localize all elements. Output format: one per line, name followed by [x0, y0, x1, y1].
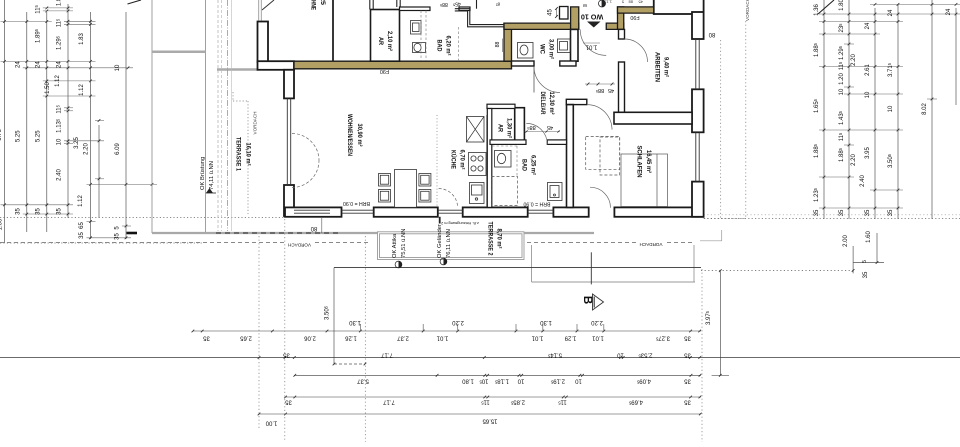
wall pier left top: [258, 22, 269, 63]
svg-text:1.01: 1.01: [585, 44, 597, 50]
svg-text:1.80: 1.80: [462, 378, 474, 384]
dim chain line 2 full width: [0, 357, 960, 359]
dim chain line 5: [259, 413, 701, 415]
svg-text:1.8: 1.8: [57, 0, 63, 6]
svg-text:AR: AR: [497, 124, 503, 133]
svg-text:10: 10: [575, 378, 582, 384]
svg-text:6,20 m²: 6,20 m²: [445, 36, 452, 56]
wall step horizontal: [258, 61, 295, 70]
svg-text:35: 35: [115, 233, 121, 240]
svg-text:45: 45: [548, 9, 554, 16]
svg-text:35: 35: [863, 271, 869, 278]
vordach grey double line above building: [258, 0, 260, 21]
WC washbasin: [558, 39, 571, 53]
svg-text:24: 24: [888, 9, 894, 16]
svg-text:WC: WC: [539, 44, 545, 55]
bottom wall pier 5 + corner: [614, 207, 703, 216]
svg-text:24: 24: [15, 61, 21, 68]
bad2 toilet: [495, 151, 512, 168]
svg-text:1.01: 1.01: [592, 335, 604, 341]
svg-text:45: 45: [638, 0, 643, 5]
interior walls: [370, 0, 692, 207]
svg-text:2.00: 2.00: [843, 235, 849, 247]
entrance door arc WO10: [580, 29, 606, 55]
schlafen terrace door arc: [590, 187, 611, 208]
terrace 1 boundary lines: [151, 0, 153, 233]
dining table: [379, 170, 431, 208]
svg-text:VORDACH: VORDACH: [640, 242, 663, 247]
svg-text:1.83: 1.83: [79, 33, 85, 45]
kitchen units: [467, 115, 487, 207]
svg-text:KÜCHE: KÜCHE: [450, 150, 457, 169]
arbeiten left wall: [619, 62, 625, 113]
ground line: [334, 267, 701, 269]
svg-text:35: 35: [888, 209, 894, 216]
bad2 washbasin: [548, 183, 563, 201]
svg-text:6,25 m²: 6,25 m²: [530, 155, 537, 175]
svg-text:24: 24: [57, 61, 63, 68]
svg-text:35: 35: [684, 335, 691, 341]
svg-text:35: 35: [15, 208, 21, 215]
installation dashed lines bad 6.20: [420, 11, 422, 62]
svg-text:OK Brüstung: OK Brüstung: [200, 157, 206, 190]
svg-text:2.20: 2.20: [84, 143, 90, 155]
svg-text:AR: AR: [377, 37, 383, 46]
svg-text:6,70 m²: 6,70 m²: [459, 150, 466, 170]
VORDACH labels: [286, 240, 313, 247]
svg-text:35: 35: [35, 208, 41, 215]
schlafen door arc: [587, 105, 612, 130]
wohnen french doors dashed arcs: [292, 134, 319, 161]
svg-text:45: 45: [547, 124, 553, 130]
right dimension chain block: [704, 0, 960, 219]
section tick top-right: [818, 0, 834, 14]
svg-text:10: 10: [865, 91, 871, 98]
svg-text:1.01: 1.01: [531, 335, 543, 341]
svg-text:35: 35: [684, 378, 691, 384]
svg-text:2.20: 2.20: [452, 319, 464, 325]
svg-text:24: 24: [865, 22, 871, 29]
svg-text:75,51 ü.NN: 75,51 ü.NN: [401, 229, 407, 258]
wall step vertical: [284, 70, 294, 99]
svg-text:45: 45: [608, 87, 614, 93]
svg-text:1.26: 1.26: [345, 335, 357, 341]
svg-text:10: 10: [57, 138, 63, 145]
schlafen wardrobe dashed left: [600, 137, 620, 175]
OK Bruestung dashed parapet lines: [217, 0, 219, 231]
arbeiten door arc: [625, 39, 648, 62]
svg-text:24: 24: [946, 8, 952, 15]
corridor wall above arbeiten door: [619, 29, 625, 39]
svg-text:2.06: 2.06: [304, 335, 316, 341]
svg-text:7.17: 7.17: [383, 399, 395, 405]
svg-text:74,11 ü.NN: 74,11 ü.NN: [209, 161, 215, 190]
railing grey continues right of terrace 2: [524, 232, 594, 234]
svg-text:TERRASSE 2: TERRASSE 2: [487, 222, 493, 257]
svg-text:VORDACH: VORDACH: [288, 243, 311, 248]
right wall corner pier: [692, 182, 704, 217]
cut dimension text top edge: [603, 0, 643, 5]
svg-text:BAD: BAD: [436, 40, 442, 53]
terrace 2 railing rectangle: [378, 232, 525, 260]
right lower dims 2.00 1.60 35 5: [852, 246, 854, 273]
svg-text:1,30 m²: 1,30 m²: [506, 118, 513, 138]
svg-text:BRH = 0.90: BRH = 0.90: [343, 200, 370, 206]
svg-text:10: 10: [517, 378, 524, 384]
bathroom 6.20 washbasin: [411, 21, 571, 201]
svg-text:OK Attika: OK Attika: [392, 233, 398, 258]
svg-text:2.40: 2.40: [57, 169, 63, 181]
svg-text:VORDACH: VORDACH: [745, 0, 750, 21]
svg-text:1.20: 1.20: [839, 73, 845, 85]
svg-text:1.80: 1.80: [839, 0, 845, 11]
svg-text:WOHNEN/ESSEN: WOHNEN/ESSEN: [346, 114, 352, 156]
svg-text:z.B. Heizungsweg m 2: z.B. Heizungsweg m 2: [441, 221, 479, 225]
svg-text:76,11 ü.NN: 76,11 ü.NN: [446, 229, 452, 258]
dotted ground continuation: [701, 270, 853, 272]
svg-text:F90: F90: [380, 68, 389, 74]
svg-text:1.12: 1.12: [78, 195, 84, 207]
dim chain line 4: [286, 396, 702, 398]
svg-text:6.09: 6.09: [115, 143, 121, 155]
svg-text:80: 80: [708, 31, 715, 37]
svg-text:35: 35: [865, 209, 871, 216]
svg-text:OK Geländer: OK Geländer: [437, 224, 443, 258]
F90 tan fire walls: [294, 7, 654, 69]
svg-text:88: 88: [495, 42, 501, 48]
svg-text:24: 24: [35, 61, 41, 68]
svg-text:8,70 m²: 8,70 m²: [496, 229, 503, 249]
svg-text:10: 10: [888, 105, 894, 112]
svg-text:3.25: 3.25: [74, 137, 80, 149]
railing grey bar with dashes: [152, 232, 378, 234]
top cut level marker: [599, 0, 606, 7]
balcony slab edges (grey): [152, 50, 206, 53]
threshold stub: [439, 217, 441, 224]
svg-text:BAD: BAD: [521, 159, 527, 172]
svg-text:10: 10: [115, 64, 121, 71]
svg-text:1.12: 1.12: [79, 84, 85, 96]
bad top wall b: [459, 7, 470, 11]
3.50 dim vertical: [333, 268, 335, 364]
svg-text:35: 35: [839, 209, 845, 216]
svg-text:6.76: 6.76: [0, 129, 3, 141]
svg-text:2.20: 2.20: [851, 154, 857, 166]
section line stub top: [262, 0, 274, 10]
svg-text:B: B: [581, 296, 593, 304]
diele south wall: [566, 99, 587, 104]
svg-text:1.00: 1.00: [0, 218, 4, 230]
AR1.30 top wall: [487, 104, 515, 108]
vordach dotted outline right: [720, 40, 722, 219]
bad2 top wall a: [490, 140, 526, 145]
svg-text:8.02: 8.02: [922, 103, 928, 115]
svg-text:12,30 m²: 12,30 m²: [548, 92, 555, 115]
right wall pier middle: [692, 89, 704, 132]
svg-text:16,45 m²: 16,45 m²: [645, 150, 652, 173]
right wall pier top: [692, 12, 704, 39]
VORDACH dashed boundary line: [0, 242, 370, 244]
bottom wall pier 3: [463, 207, 528, 216]
svg-text:35: 35: [285, 399, 292, 405]
svg-text:5.25: 5.25: [15, 130, 21, 142]
svg-text:2.61: 2.61: [865, 64, 871, 76]
svg-text:1.50: 1.50: [45, 82, 51, 94]
dim chain line 1: [193, 330, 701, 332]
svg-text:35: 35: [684, 399, 691, 405]
svg-text:35: 35: [79, 232, 85, 239]
svg-text:2.20: 2.20: [591, 319, 603, 325]
svg-text:2.20: 2.20: [851, 54, 857, 66]
kueche/wohnzimmer west wall: [487, 109, 492, 208]
svg-text:SCHLAFEN: SCHLAFEN: [636, 146, 642, 178]
dim chain line 3: [294, 374, 701, 376]
svg-text:35: 35: [57, 208, 63, 215]
svg-text:10: 10: [617, 352, 624, 358]
AR1.30 right wall: [515, 108, 525, 144]
wardrobe dashed: [586, 137, 620, 170]
extension dotted x702: [701, 269, 703, 442]
svg-text:1.30: 1.30: [349, 319, 361, 325]
WC door arc: [534, 67, 560, 93]
svg-text:25: 25: [319, 0, 325, 6]
svg-text:TERRASSE 1: TERRASSE 1: [235, 137, 241, 172]
svg-text:2.40: 2.40: [860, 175, 866, 187]
bad2 shower dashed: [492, 177, 518, 206]
extension dotted x285: [284, 219, 286, 442]
svg-text:3.95: 3.95: [865, 147, 871, 159]
svg-text:3,00 m²: 3,00 m²: [548, 39, 555, 59]
divider wall arbeiten/schlafen: [614, 112, 692, 124]
svg-text:1.00: 1.00: [265, 420, 277, 426]
grey path step below terrace: [531, 245, 533, 282]
bottom wall pier 4: [553, 207, 588, 216]
svg-text:9,40 m²: 9,40 m²: [663, 57, 670, 77]
svg-text:ARBEITEN: ARBEITEN: [654, 52, 660, 82]
svg-text:2.65: 2.65: [240, 335, 252, 341]
svg-text:88: 88: [628, 0, 633, 5]
svg-text:2.37: 2.37: [397, 335, 409, 341]
3.97 dim vertical right: [719, 271, 721, 376]
svg-text:1.30: 1.30: [540, 319, 552, 325]
svg-text:1.29: 1.29: [564, 335, 576, 341]
shaft box left of entrance pier: [560, 7, 569, 20]
wall corner pier bottom-left: [284, 185, 294, 216]
WC toilet: [518, 43, 534, 59]
svg-text:1.13: 1.13: [603, 0, 612, 5]
schlafen left wall: [567, 105, 574, 208]
svg-text:15.65: 15.65: [482, 418, 498, 424]
svg-text:VORDACH: VORDACH: [253, 112, 258, 135]
svg-text:65: 65: [79, 222, 85, 229]
svg-text:16,10 m²: 16,10 m²: [245, 143, 252, 166]
windows double glazing lines: [287, 39, 699, 213]
building exterior walls: [258, 0, 704, 217]
kueche dotted boundary: [436, 115, 438, 207]
bathroom 6.20 wc: [413, 43, 426, 53]
svg-text:7.17: 7.17: [381, 352, 393, 358]
svg-text:30,90 m²: 30,90 m²: [356, 124, 363, 147]
svg-text:WOHNE: WOHNE: [310, 0, 316, 10]
svg-text:1.60: 1.60: [866, 231, 872, 243]
section marker B: [590, 252, 592, 284]
bad2 door arc: [526, 123, 547, 144]
dashed lines bad2: [492, 145, 517, 147]
section tick top-left: [128, 0, 142, 4]
bad2 top wall b: [547, 140, 566, 145]
svg-text:BRH = 0.90: BRH = 0.90: [523, 201, 550, 207]
svg-text:80: 80: [310, 225, 317, 231]
svg-text:F90: F90: [630, 14, 639, 20]
upper flat partition wall: [332, 0, 334, 61]
svg-text:35: 35: [684, 352, 691, 358]
svg-text:10: 10: [839, 88, 845, 95]
svg-text:35: 35: [203, 335, 210, 341]
svg-text:2,10 m²: 2,10 m²: [386, 31, 393, 51]
bottom wall pier 1: [285, 207, 342, 216]
svg-text:35: 35: [283, 352, 290, 358]
bed: [621, 154, 668, 207]
WC bottom wall right / pier: [560, 61, 576, 66]
svg-text:1.12: 1.12: [55, 75, 61, 87]
svg-text:DIELE/AR: DIELE/AR: [539, 92, 545, 116]
extension dotted x365: [364, 236, 366, 442]
bad top wall a: [400, 7, 431, 11]
svg-text:5.37: 5.37: [357, 378, 369, 384]
WC right wall: [571, 29, 579, 61]
svg-text:WO 10: WO 10: [581, 13, 603, 22]
bottom wall pier 2: [374, 207, 438, 216]
svg-text:1.36: 1.36: [814, 4, 820, 16]
svg-text:35: 35: [814, 209, 820, 216]
top wall arbeiten: [654, 0, 704, 14]
svg-text:5: 5: [862, 260, 868, 263]
bottom dimension chains: [0, 219, 960, 442]
kueche door arc dashed: [439, 189, 458, 208]
WC bottom wall left: [512, 61, 535, 66]
svg-text:5.25: 5.25: [35, 130, 41, 142]
AR closet walls: [371, 10, 400, 62]
stepped thin wall landing/bad: [455, 9, 504, 25]
extension dotted x259: [258, 236, 260, 430]
left dimension chain block: [0, 0, 285, 243]
dotted corner below left wall: [232, 92, 234, 101]
svg-text:1.01: 1.01: [436, 335, 448, 341]
